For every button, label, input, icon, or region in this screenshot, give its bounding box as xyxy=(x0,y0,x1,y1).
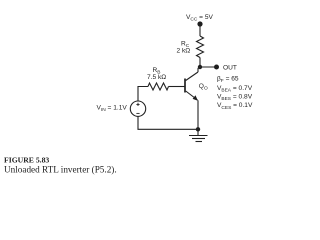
wire RB to VIN top xyxy=(138,87,148,102)
wire VCC to RC xyxy=(199,25,201,36)
svg-text:VCES = 0.1V: VCES = 0.1V xyxy=(217,102,253,111)
svg-text:QO: QO xyxy=(199,83,208,92)
wire base xyxy=(169,86,185,88)
transistor Q0 emitter arrowhead xyxy=(193,95,198,100)
resistor RB xyxy=(148,83,169,90)
svg-text:Unloaded RTL inverter (P5.2).: Unloaded RTL inverter (P5.2). xyxy=(4,165,117,175)
wire emitter vertical xyxy=(197,100,199,129)
transistor Q0 collector lead xyxy=(186,72,198,81)
svg-text:7.5 kΩ: 7.5 kΩ xyxy=(147,74,166,81)
wire VIN bottom to ground rail xyxy=(138,116,198,129)
VCC terminal node xyxy=(197,21,202,26)
resistor RC xyxy=(197,36,204,58)
wire junction to OUT xyxy=(200,66,217,68)
source VIN xyxy=(130,101,145,116)
svg-text:2 kΩ: 2 kΩ xyxy=(177,48,191,55)
wire collector vertical xyxy=(198,67,200,72)
transistor Q0 emitter lead xyxy=(186,91,198,100)
VIN minus sign xyxy=(136,112,139,114)
svg-text:VIN = 1.1V: VIN = 1.1V xyxy=(97,104,128,113)
VIN plus sign xyxy=(136,103,139,106)
svg-text:FIGURE 5.83: FIGURE 5.83 xyxy=(4,156,49,165)
wire RC to collector junction xyxy=(199,58,201,68)
node collector junction xyxy=(198,65,202,69)
node emitter-ground junction xyxy=(196,127,200,131)
svg-text:VBEA = 0.7V: VBEA = 0.7V xyxy=(217,85,253,94)
svg-text:OUT: OUT xyxy=(223,65,237,72)
transistor Q0 base bar xyxy=(184,79,186,93)
svg-text:VBES = 0.8V: VBES = 0.8V xyxy=(217,94,253,103)
svg-text:βF = 65: βF = 65 xyxy=(217,76,239,85)
OUT terminal node xyxy=(214,65,219,70)
svg-text:VCC = 5V: VCC = 5V xyxy=(186,14,214,23)
ground xyxy=(197,129,199,135)
